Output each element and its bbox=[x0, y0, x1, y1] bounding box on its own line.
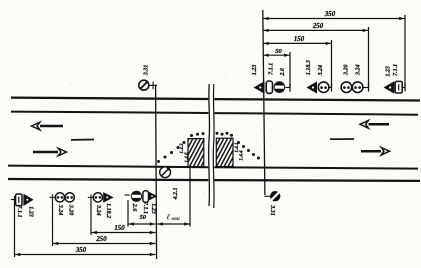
dimension 50 (bottom) bbox=[128, 223, 156, 225]
svg-text:2.6: 2.6 bbox=[280, 68, 286, 77]
carriageway edge line lower-left bbox=[8, 166, 208, 168]
road edge line bottom-right (south shoulder) bbox=[214, 179, 420, 182]
svg-text:250: 250 bbox=[95, 236, 107, 243]
sign 2.6 (group D bottom, dark circle) bbox=[131, 191, 142, 202]
svg-text:1.18.3: 1.18.3 bbox=[306, 60, 312, 75]
carriageway edge line upper-left bbox=[11, 112, 208, 113]
extension line 150 left (bottom) bbox=[90, 195, 92, 236]
extension line 350 left (bottom) bbox=[14, 196, 16, 257]
work zone hatched area right half bbox=[216, 138, 233, 166]
sign 1.23 (group D bottom, triangle) bbox=[149, 192, 157, 201]
centre line dash left bbox=[71, 139, 94, 141]
svg-text:отг: отг bbox=[172, 216, 181, 222]
traffic arrow lower-right lane (eastbound) bbox=[361, 150, 381, 153]
centre line dash right bbox=[330, 138, 354, 140]
post group 1 top bbox=[285, 87, 290, 89]
road edge line top-left (north shoulder) bbox=[11, 98, 208, 99]
sign 3.24 (group 3 top, circle) bbox=[352, 82, 363, 93]
break line right (wavy) bbox=[212, 84, 215, 208]
sign 7.1.1 plate (group 1 top) bbox=[266, 81, 272, 93]
svg-text:50: 50 bbox=[140, 214, 147, 221]
svg-text:3.24: 3.24 bbox=[355, 65, 361, 77]
post group 2 top bbox=[329, 87, 331, 89]
dimension l otg (taper length) bbox=[157, 223, 190, 225]
dimension 350 (top) bbox=[263, 18, 405, 20]
svg-text:1.23: 1.23 bbox=[150, 203, 156, 214]
svg-text:2.6: 2.6 bbox=[131, 203, 137, 212]
post group 4 top bbox=[403, 87, 406, 89]
sign 7.1.1 plate (group D bottom) bbox=[143, 191, 149, 203]
work zone hatched area left half bbox=[188, 139, 204, 167]
dimension 150 (bottom) bbox=[91, 232, 156, 234]
extension line 350 right bbox=[404, 15, 406, 87]
svg-text:3.20: 3.20 bbox=[67, 204, 73, 216]
dimension 250 (top) bbox=[263, 29, 369, 31]
svg-text:3.24: 3.24 bbox=[318, 65, 324, 77]
sign 1.18.2 (group C bottom, triangle) bbox=[103, 192, 113, 203]
svg-text:7.1.1: 7.1.1 bbox=[393, 64, 399, 76]
sign 3.31 bottom (dark circle with white slash) bbox=[270, 191, 280, 201]
post group A bottom bbox=[11, 199, 15, 201]
sign 7.1.1 plate (group 4 top) bbox=[395, 81, 402, 93]
dimension 50 (top) bbox=[263, 54, 290, 56]
sign 1.23 (group 4 top, triangle) bbox=[384, 81, 395, 93]
post tie 3.31 bottom bbox=[264, 195, 270, 197]
carriageway edge line upper-right bbox=[214, 113, 418, 115]
svg-text:3.20: 3.20 bbox=[343, 65, 349, 77]
svg-text:250: 250 bbox=[312, 23, 324, 30]
extension line l otg right (work zone edge) bbox=[189, 168, 191, 227]
traffic arrow upper-right lane (westbound) bbox=[369, 123, 390, 126]
carriageway edge line lower-right bbox=[214, 167, 418, 168]
sign 3.31 top (circle with slash) bbox=[139, 80, 149, 90]
traffic arrow lower-left lane (eastbound) bbox=[33, 151, 58, 154]
svg-text:3.24: 3.24 bbox=[57, 204, 63, 216]
post group B bottom bbox=[50, 196, 55, 198]
extension line 150 right bbox=[331, 40, 333, 87]
svg-text:7.1.1: 7.1.1 bbox=[142, 202, 148, 214]
traffic arrow upper-left lane (westbound) bbox=[40, 125, 63, 128]
svg-text:4.2.1: 4.2.1 bbox=[173, 188, 179, 201]
svg-text:3.24: 3.24 bbox=[95, 204, 101, 216]
sign 2.6 (group 1 top, dark circle) bbox=[274, 81, 286, 93]
svg-text:150: 150 bbox=[114, 225, 125, 232]
sign 1.23 (group A bottom, triangle) bbox=[23, 194, 33, 206]
svg-text:1.4.6: 1.4.6 bbox=[184, 152, 190, 163]
svg-text:3.31: 3.31 bbox=[269, 204, 275, 216]
dimension 350 (bottom) bbox=[15, 254, 156, 256]
extension line 50 right bbox=[289, 52, 291, 87]
svg-text:150: 150 bbox=[294, 36, 305, 43]
svg-text:1.23: 1.23 bbox=[252, 65, 258, 76]
sign 3.20 (group 3 top, circle) bbox=[341, 82, 352, 93]
svg-text:1.4.4: 1.4.4 bbox=[239, 150, 245, 161]
svg-text:1.18.2: 1.18.2 bbox=[105, 203, 111, 218]
svg-text:350: 350 bbox=[75, 247, 87, 254]
svg-text:1.23: 1.23 bbox=[27, 206, 33, 217]
svg-text:3.31: 3.31 bbox=[144, 65, 150, 77]
sign 3.24 (group B bottom, circle) bbox=[55, 193, 64, 202]
extension line 50 left (bottom) bbox=[127, 200, 129, 227]
reference line at work-zone start (node V2) bbox=[156, 85, 157, 260]
sign 1.23 (group 1 top, triangle) bbox=[254, 81, 265, 93]
reference line at work-zone end (node V1) bbox=[263, 10, 265, 195]
extension line 250 left (bottom) bbox=[52, 195, 54, 247]
sign 1.18.3 (group 2 top, triangle) bbox=[307, 81, 318, 93]
svg-text:7.1.1: 7.1.1 bbox=[16, 206, 22, 218]
sign 3.24 (group 2 top, circle) bbox=[318, 82, 329, 93]
road edge line top-right (north shoulder) bbox=[214, 99, 420, 100]
sign 3.20 (group B bottom, circle) bbox=[65, 193, 74, 202]
road edge line bottom-left (south shoulder) bbox=[8, 179, 208, 180]
sign 4.2.1 (detour direction, at start of zone) bbox=[160, 167, 171, 178]
post group C bottom bbox=[88, 196, 93, 198]
post group 3 top bbox=[363, 87, 368, 89]
break line left (wavy) bbox=[208, 84, 211, 206]
guide cones (dots) around work zone bbox=[157, 160, 160, 163]
svg-text:7.1.1: 7.1.1 bbox=[268, 63, 274, 75]
dimension 150 (top) bbox=[263, 42, 332, 44]
dimension 250 (bottom) bbox=[53, 243, 156, 245]
svg-text:50: 50 bbox=[275, 48, 282, 55]
svg-text:1.23: 1.23 bbox=[386, 66, 392, 77]
sign 7.1.1 plate (group A bottom) bbox=[16, 194, 22, 206]
post group D bottom bbox=[125, 194, 130, 196]
svg-text:1.4.3: 1.4.3 bbox=[179, 143, 185, 154]
svg-text:350: 350 bbox=[324, 11, 336, 18]
sign 3.24 (group C bottom, circle) bbox=[93, 193, 102, 202]
post tie 3.31 top bbox=[149, 84, 157, 86]
extension line 250 right bbox=[368, 27, 370, 87]
svg-text:ℓ: ℓ bbox=[167, 213, 171, 222]
